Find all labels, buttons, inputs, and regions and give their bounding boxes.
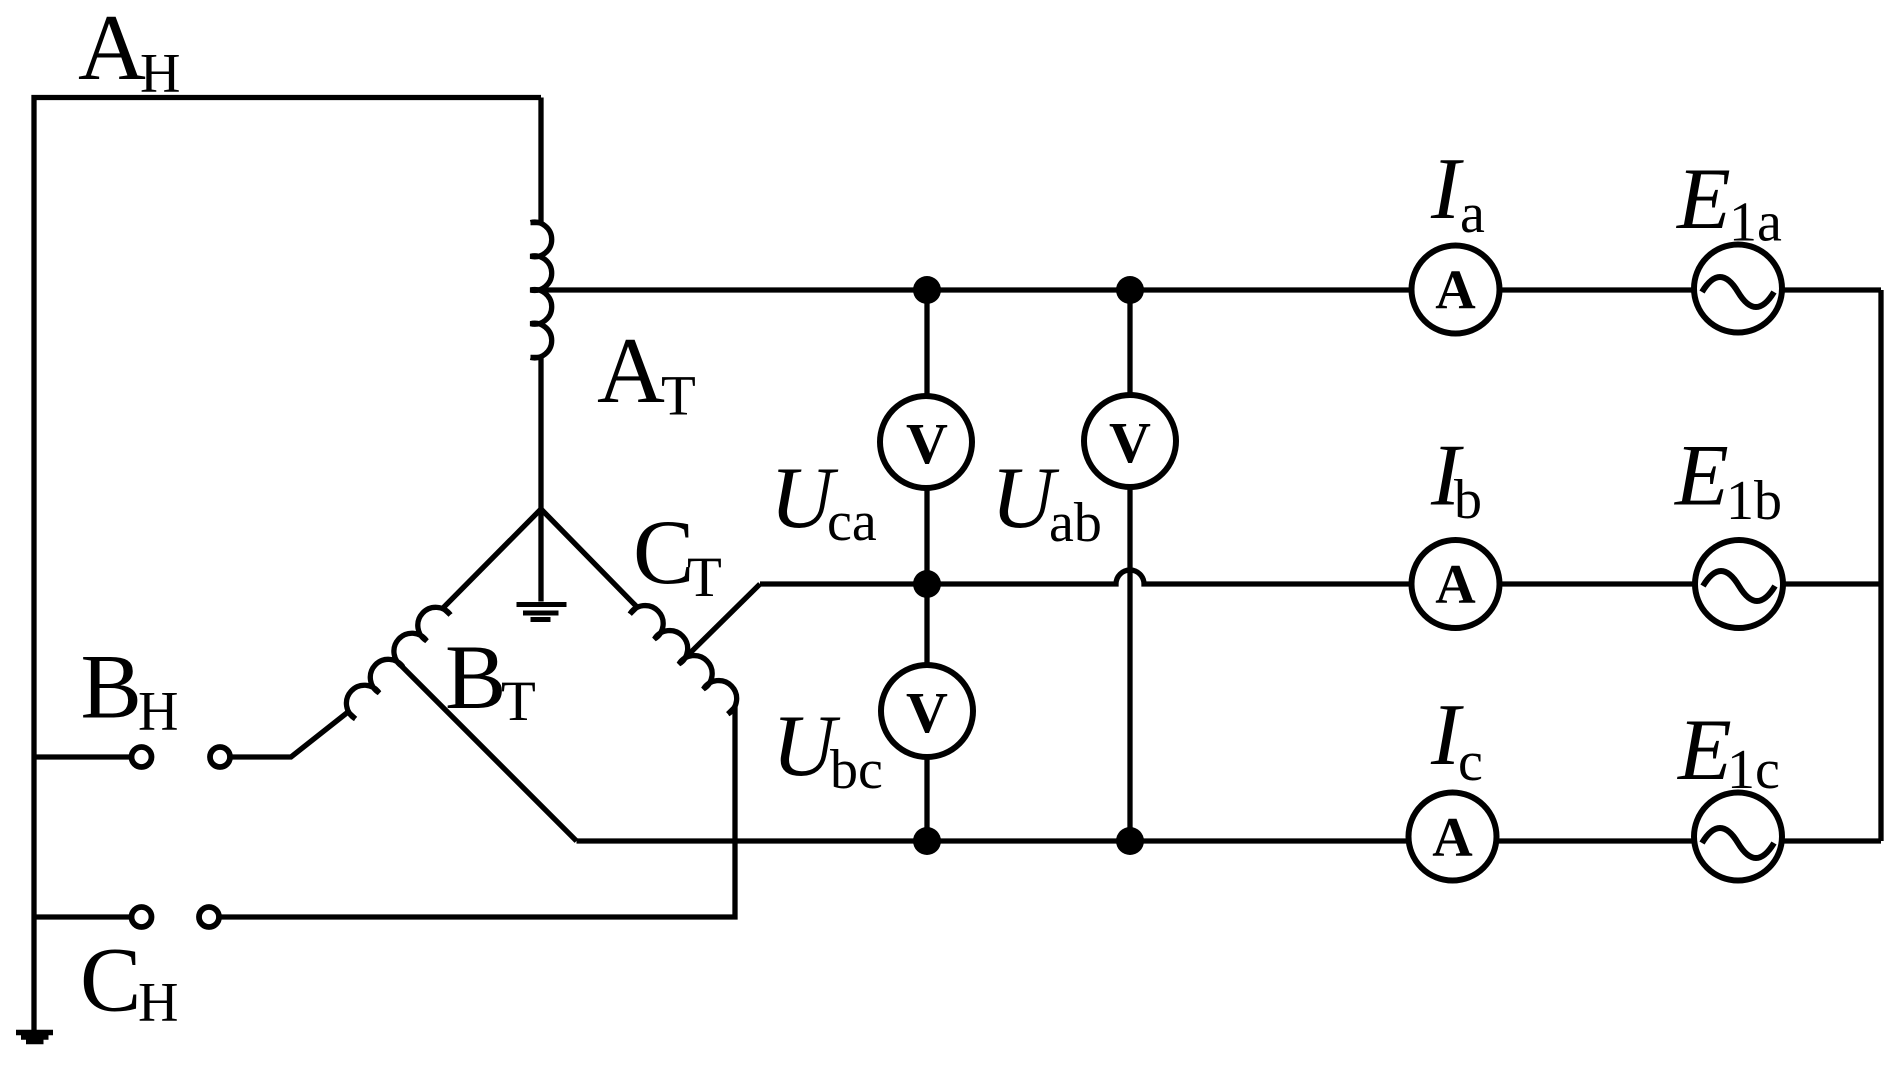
ground: earth symbol at star point bbox=[517, 605, 567, 620]
wire: hooks of winding CT bbox=[630, 607, 735, 714]
wire: star point ground stub bbox=[538, 509, 543, 602]
svg-text:A: A bbox=[597, 319, 665, 423]
wire: winding AT bottom to star point bbox=[538, 357, 543, 509]
switch contact CH left bbox=[132, 907, 152, 927]
svg-text:I: I bbox=[1430, 141, 1464, 238]
svg-text:bc: bc bbox=[830, 739, 883, 801]
wire: winding BT bottom to BH switch bbox=[232, 712, 348, 757]
svg-text:E: E bbox=[1676, 702, 1732, 799]
svg-text:1a: 1a bbox=[1729, 192, 1782, 254]
svg-text:ab: ab bbox=[1049, 492, 1102, 554]
svg-text:V: V bbox=[1109, 410, 1151, 475]
svg-text:E: E bbox=[1673, 428, 1729, 525]
source E1b sine bbox=[1703, 571, 1775, 601]
wire: hook at bottom of winding AT bbox=[531, 355, 543, 360]
wire: tap of winding BT to phase c line bbox=[396, 660, 577, 841]
node: junction dot a-line col2 bbox=[1116, 276, 1144, 304]
svg-text:A: A bbox=[1435, 260, 1476, 322]
node: junction dot a-line col1 bbox=[913, 276, 941, 304]
svg-text:E: E bbox=[1675, 151, 1731, 248]
ammeter A (I_b) circle bbox=[1412, 540, 1500, 628]
switch contact BH left bbox=[132, 747, 152, 767]
inductor: winding CT (4 loops) bbox=[630, 606, 737, 714]
voltmeter V (U_ab) circle bbox=[1084, 395, 1176, 487]
wire: phase a horizontal line bbox=[531, 287, 1882, 292]
wire: hooks of winding BT bbox=[348, 608, 450, 719]
svg-text:T: T bbox=[661, 365, 696, 428]
switch contact BH right bbox=[210, 747, 230, 767]
svg-text:B: B bbox=[445, 626, 506, 728]
svg-text:H: H bbox=[138, 681, 178, 743]
wire: voltmeter column 1 bbox=[924, 290, 929, 841]
wire: phase c horizontal line bbox=[577, 838, 1882, 843]
wire: left bus to CH switch contact bbox=[34, 914, 130, 919]
source E1a circle bbox=[1694, 245, 1782, 333]
svg-text:V: V bbox=[906, 411, 948, 476]
wire: star point to winding CT bbox=[541, 509, 637, 607]
inductor: winding AT (4 loops) bbox=[531, 222, 552, 358]
svg-text:b: b bbox=[1454, 469, 1482, 531]
svg-text:c: c bbox=[1458, 731, 1483, 793]
inductor: winding BT (4 loops) bbox=[346, 607, 450, 718]
svg-text:V: V bbox=[906, 680, 948, 745]
svg-text:ca: ca bbox=[827, 491, 877, 553]
svg-text:A: A bbox=[1435, 554, 1476, 616]
source E1c sine bbox=[1702, 828, 1774, 858]
svg-text:T: T bbox=[687, 546, 722, 609]
svg-text:T: T bbox=[501, 670, 536, 733]
wire: hook at top of winding AT bbox=[531, 220, 543, 225]
wire: left bus to BH switch contact bbox=[34, 754, 130, 759]
ammeter A (I_a) circle bbox=[1412, 246, 1500, 334]
node: junction dot c-line col2 bbox=[1116, 827, 1144, 855]
source E1c circle bbox=[1694, 793, 1782, 881]
source E1b circle bbox=[1695, 540, 1783, 628]
svg-text:H: H bbox=[138, 972, 178, 1034]
svg-text:C: C bbox=[633, 501, 694, 603]
svg-text:a: a bbox=[1460, 183, 1485, 245]
voltmeter V (U_ca) circle bbox=[880, 396, 972, 488]
svg-text:C: C bbox=[80, 929, 141, 1031]
svg-text:A: A bbox=[1432, 807, 1473, 869]
wire: AH top line and left bus bbox=[34, 98, 541, 1031]
voltmeter V (U_bc) circle bbox=[881, 665, 973, 757]
ammeter A (I_c) circle bbox=[1409, 793, 1497, 881]
wire: phase b horizontal line with hop over column 2 bbox=[760, 570, 1881, 584]
ground: earth symbol at bottom of left bus bbox=[16, 1033, 53, 1042]
node: junction dot c-line col1 bbox=[913, 827, 941, 855]
wire: voltmeter column 2 bbox=[1127, 290, 1132, 841]
wire: tap of winding CT to phase b line bbox=[686, 584, 760, 657]
svg-text:1b: 1b bbox=[1726, 470, 1782, 532]
wire: right bus joining sources bbox=[1878, 290, 1883, 841]
svg-text:B: B bbox=[81, 636, 142, 738]
wire: star point to winding BT bbox=[443, 509, 541, 608]
source E1a sine bbox=[1702, 277, 1774, 307]
switch contact CH right bbox=[199, 907, 219, 927]
svg-text:A: A bbox=[78, 0, 146, 100]
svg-text:H: H bbox=[140, 43, 180, 105]
node: junction dot b-line col1 bbox=[913, 570, 941, 598]
wire: winding CT bottom down and CH line to switch bbox=[221, 707, 735, 917]
wire: phase A vertical from AH line to winding bbox=[538, 98, 543, 223]
svg-text:1c: 1c bbox=[1727, 739, 1780, 801]
